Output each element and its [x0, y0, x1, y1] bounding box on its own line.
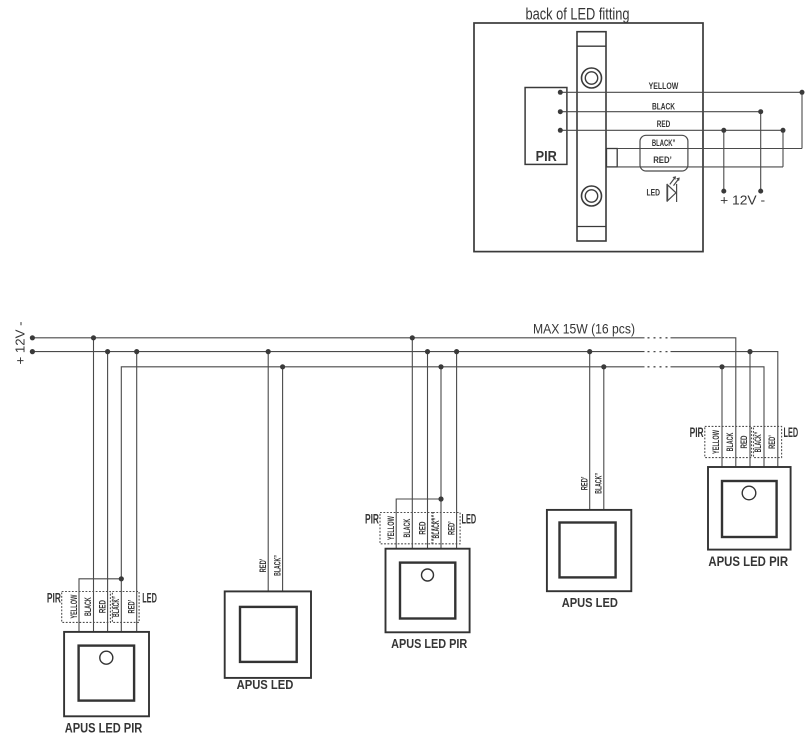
- wire f1 red' drop: [136, 352, 138, 632]
- svg-text:PIR: PIR: [365, 511, 379, 526]
- svg-text:APUS LED PIR: APUS LED PIR: [65, 721, 143, 736]
- fixture 1 APUS LED PIR outer frame: [64, 632, 149, 716]
- wire f4 black" drop: [603, 367, 605, 510]
- LED strip body: [577, 32, 606, 241]
- svg-text:RED’: RED’: [445, 521, 456, 535]
- wire f2 black" drop: [282, 367, 284, 592]
- dashed box f3 LED wires: [433, 513, 460, 544]
- bus wire A right segment and drop to fixture 5 black: [671, 338, 736, 467]
- svg-text:LED: LED: [784, 425, 799, 440]
- svg-text:YELLOW: YELLOW: [68, 595, 79, 619]
- svg-text:APUS LED PIR: APUS LED PIR: [391, 636, 467, 651]
- fixture 5 PIR lens circle: [742, 486, 756, 500]
- node red junction right: [781, 128, 786, 133]
- PIR sensor box: [525, 88, 567, 166]
- svg-text:MAX 15W (16 pcs): MAX 15W (16 pcs): [533, 322, 635, 337]
- svg-text:BLACK”: BLACK”: [110, 596, 121, 617]
- wire f2 red' drop: [267, 352, 269, 592]
- node f2 black" on bus C: [280, 364, 285, 369]
- svg-text:LED: LED: [142, 590, 157, 605]
- screw hole top: [582, 68, 602, 88]
- wire f3 black" drop: [440, 367, 442, 549]
- svg-text:LED: LED: [647, 188, 661, 198]
- dashed box f3 PIR wires: [380, 513, 432, 544]
- svg-text:YELLOW: YELLOW: [385, 516, 396, 540]
- bus wire A dashed continuation: [648, 337, 670, 339]
- fixture 3 inner frame: [400, 563, 455, 619]
- bus wire C right segment and drop to fixture 5 black": [671, 367, 765, 467]
- svg-text:RED’: RED’: [257, 559, 268, 573]
- LED strip connector tab: [607, 149, 618, 167]
- wire RED' from connector: [617, 166, 783, 168]
- bus wire A (minus) solid left: [32, 337, 644, 339]
- bus wire B right segment and drop to fixture 5 red': [671, 352, 778, 467]
- wire f1 red drop: [107, 352, 109, 632]
- svg-text:BLACK: BLACK: [724, 432, 735, 451]
- fixture 1 PIR lens circle: [100, 651, 113, 664]
- svg-text:RED: RED: [657, 119, 671, 130]
- dashed box f5 LED wires: [754, 426, 782, 457]
- dashed box f5 PIR wires: [705, 426, 752, 457]
- fixture 3 PIR lens circle: [422, 569, 434, 581]
- node f4 red' on bus B: [587, 349, 592, 354]
- enclosure box of LED fitting: [474, 23, 703, 252]
- wire f3 red drop: [427, 352, 429, 549]
- node PIR pin yellow: [558, 90, 563, 95]
- svg-text:YELLOW: YELLOW: [649, 81, 679, 92]
- node PIR pin black: [558, 109, 563, 114]
- terminal node B left: [30, 349, 35, 354]
- node f1 yellow jumper junction: [119, 576, 124, 581]
- svg-text:RED’: RED’: [766, 435, 777, 449]
- node - on black wire: [758, 109, 763, 114]
- fixture 4 inner frame: [560, 523, 616, 578]
- bus wire C dashed continuation: [648, 366, 670, 368]
- node f3 black on bus A: [410, 335, 415, 340]
- wire f4 red' drop: [589, 352, 591, 510]
- svg-text:APUS LED PIR: APUS LED PIR: [708, 554, 788, 569]
- node f5 red on bus B: [747, 349, 752, 354]
- node f2 red' on bus B: [266, 349, 271, 354]
- svg-text:PIR: PIR: [536, 148, 557, 165]
- svg-text:BLACK: BLACK: [82, 597, 93, 616]
- svg-text:BLACK”: BLACK”: [430, 518, 441, 539]
- node f3 yellow jumper junction: [438, 496, 443, 501]
- wire f3 red' drop: [456, 352, 458, 549]
- LED strip top cap line: [577, 45, 606, 47]
- label box BLACK'/RED': [640, 135, 688, 171]
- fixture 5 APUS LED PIR outer frame: [708, 467, 791, 550]
- svg-text:RED: RED: [738, 435, 749, 448]
- wire f3 yellow jumper: [396, 499, 441, 549]
- svg-text:BLACK”: BLACK”: [652, 138, 676, 149]
- wire RED: [560, 129, 783, 131]
- svg-text:BLACK: BLACK: [652, 102, 675, 113]
- svg-text:LED: LED: [462, 511, 477, 526]
- node f3 red on bus B: [425, 349, 430, 354]
- node f5 yellow on bus C: [719, 364, 724, 369]
- terminal node A left: [30, 335, 35, 340]
- svg-text:RED’: RED’: [653, 155, 672, 166]
- node f4 black" on bus C: [601, 364, 606, 369]
- wire vertical red-to-red': [782, 130, 784, 167]
- bus wire B dashed continuation: [648, 351, 670, 353]
- node + on red wire: [721, 128, 726, 133]
- node yellow right end: [800, 90, 805, 95]
- terminal - 12V: [758, 189, 763, 194]
- node f1 red' on bus B: [134, 349, 139, 354]
- dashed box f1 LED wires: [112, 592, 139, 623]
- node f3 black" on bus C: [438, 364, 443, 369]
- terminal + 12V: [721, 189, 726, 194]
- LED strip bottom cap line: [577, 226, 606, 228]
- svg-text:APUS LED: APUS LED: [237, 677, 294, 692]
- wire YELLOW: [560, 91, 802, 93]
- svg-text:PIR: PIR: [690, 425, 704, 440]
- wire BLACK' from connector: [617, 148, 802, 150]
- svg-text:+ 12V -: + 12V -: [720, 194, 765, 208]
- svg-text:+ 12V -: + 12V -: [14, 322, 28, 365]
- fixture 2 APUS LED outer frame: [225, 591, 311, 678]
- fixture 5 inner frame: [722, 481, 777, 537]
- svg-text:BLACK”: BLACK”: [593, 473, 604, 494]
- svg-text:PIR: PIR: [47, 590, 61, 605]
- fixture 1 inner frame: [79, 646, 135, 701]
- wire + supply vertical: [723, 130, 725, 191]
- wire f1 black drop: [93, 338, 95, 632]
- wire - supply vertical: [760, 112, 762, 191]
- svg-text:BLACK: BLACK: [401, 519, 412, 538]
- wire f1 yellow jumper: [79, 579, 121, 632]
- fixture 2 inner frame: [240, 607, 297, 662]
- fixture 3 APUS LED PIR outer frame: [386, 549, 470, 633]
- svg-text:back of LED fitting: back of LED fitting: [526, 6, 630, 24]
- node f1 black on bus A: [91, 335, 96, 340]
- LED diode symbol: [667, 177, 679, 202]
- node f1 red on bus B: [105, 349, 110, 354]
- wire f5 yellow drop: [721, 367, 723, 467]
- fixture 4 APUS LED outer frame: [547, 510, 631, 591]
- bus wire B (plus) solid left: [32, 351, 644, 353]
- node PIR pin red: [558, 128, 563, 133]
- bus wire C (pir trigger) with start corner above fixture 1: [121, 367, 644, 632]
- dashed box f1 PIR wires: [62, 592, 111, 623]
- svg-text:RED: RED: [96, 600, 107, 613]
- svg-text:YELLOW: YELLOW: [710, 430, 721, 454]
- svg-text:BLACK”: BLACK”: [752, 432, 763, 453]
- svg-text:APUS LED: APUS LED: [562, 595, 618, 610]
- wire BLACK: [560, 111, 760, 113]
- wire f3 black drop: [411, 338, 413, 549]
- screw hole bottom: [582, 186, 602, 206]
- node f3 red' on bus B: [454, 349, 459, 354]
- svg-text:BLACK”: BLACK”: [271, 555, 282, 576]
- svg-text:RED’: RED’: [579, 477, 590, 491]
- wire f5 red drop: [749, 352, 751, 467]
- svg-text:RED: RED: [416, 521, 427, 534]
- wire vertical yellow-to-black': [801, 92, 803, 148]
- svg-text:RED’: RED’: [125, 600, 136, 614]
